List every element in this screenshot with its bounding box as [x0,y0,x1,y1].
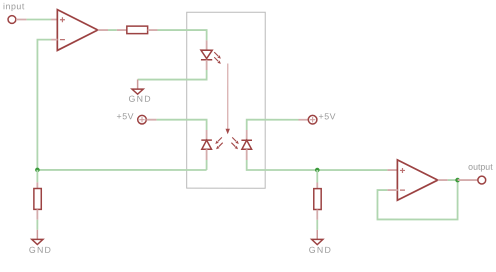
op-amp U1 [57,10,97,51]
wire D3 anode to node B [247,160,388,170]
LED D1 [201,50,212,60]
resistor R2 [34,189,41,210]
svg-text:+5V: +5V [319,111,337,121]
svg-text:GND: GND [29,245,52,255]
wire LED cathode to GND [138,70,207,80]
label +5V left [117,111,135,121]
wire feedback to U1 -input [37,40,51,170]
supply +5V left [138,115,157,124]
input terminal [8,16,27,24]
junction node A [35,168,40,173]
wire node A to R2 [36,170,38,183]
wire D2 anode to node A [206,160,208,170]
photodiode D2 anode pin [206,149,208,160]
ground GND1 [129,80,152,104]
LED D1 emission arrows [214,52,221,64]
label output [468,162,493,172]
wire R1 to LED anode [158,30,207,40]
output terminal [478,176,486,184]
op-amp U1 -input pin [51,39,58,41]
svg-text:+5V: +5V [117,111,135,121]
op-amp U2 -input pin [387,189,397,191]
resistor R3 top pin [316,183,318,189]
op-amp U2 output pin [438,179,448,181]
label input [3,1,25,11]
op-amp U1 output pin [98,29,108,31]
photodiode D3 cathode pin [246,130,248,140]
resistor R1 right pin [148,29,158,31]
resistor R1 [127,26,148,34]
wire node B to R3 [316,170,318,183]
wire feedback U2 [377,180,457,219]
op-amp U1 +input pin [51,19,58,21]
photodiode D3 [241,140,252,149]
resistor R1 left pin [117,29,127,31]
photodiode D2 cathode pin [206,130,208,140]
wire +5V right to photodiode D3 [247,120,299,130]
wire R3 to GND3 [316,220,318,230]
resistor R2 top pin [36,182,38,188]
photodiode D3 reception arrows [231,137,238,149]
wire R2 to GND2 [36,220,38,230]
optocoupler package outline box [187,12,266,188]
supply +5V right [299,115,317,124]
resistor R3 [314,189,321,210]
label +5V right [319,111,337,121]
LED D1 cathode pin [206,60,208,70]
wire U1 out to R1 [108,29,117,31]
op-amp U2 +input pin [387,169,397,171]
resistor R3 bottom pin [316,210,318,220]
photodiode D3 anode pin [246,149,248,160]
wire node A horizontal [37,169,206,171]
LED D1 anode pin [206,40,208,50]
svg-text:input: input [3,1,25,11]
output terminal pin [458,179,478,181]
ground GND2 [29,230,52,255]
svg-text:GND: GND [129,94,152,104]
svg-text:output: output [468,162,493,172]
wire input net [27,19,51,21]
wire U2 out to node C [448,179,458,181]
wire +5V to photodiode D2 [157,120,207,130]
op-amp U2 [397,160,437,200]
resistor R2 bottom pin [36,209,38,219]
ground GND3 [309,230,332,255]
photodiode D2 [201,140,212,149]
junction node C [455,178,460,183]
light ray arrow [226,63,230,134]
photodiode D2 reception arrows [215,137,222,149]
svg-text:GND: GND [309,245,332,255]
junction node B [315,168,320,173]
